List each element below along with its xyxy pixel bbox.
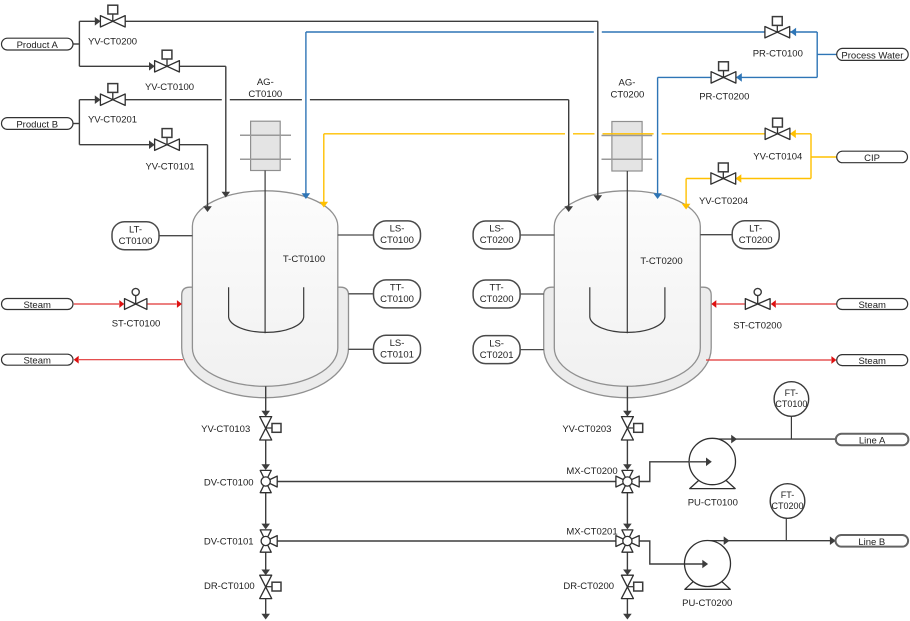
wire Product A branch riser (78, 21, 80, 66)
svg-text:MX-CT0200: MX-CT0200 (566, 466, 617, 477)
svg-text:LT-: LT- (749, 223, 762, 234)
wire FT-CT0200 tap (785, 518, 787, 540)
svg-text:YV-CT0201: YV-CT0201 (88, 115, 137, 126)
valve DV-CT0101 (3-way) (260, 530, 271, 541)
svg-text:Line B: Line B (858, 537, 885, 548)
wire MX-CT0201 to DR-CT0200 (626, 552, 628, 570)
wire MX-CT0200 to pump PU-CT0100 (639, 462, 706, 482)
svg-text:TT-: TT- (390, 283, 404, 294)
svg-text:Steam: Steam (858, 356, 886, 367)
svg-text:AG-: AG- (257, 77, 274, 88)
valve YV-CT0201 (112, 92, 114, 99)
wire steam return right (706, 359, 831, 361)
svg-text:ST-CT0200: ST-CT0200 (733, 320, 782, 331)
valve YV-CT0100 (166, 59, 168, 66)
wire FT-CT0100 tap (790, 416, 792, 439)
svg-text:CT0201: CT0201 (480, 350, 514, 361)
wire drop into tank 1 from YV-CT0101 (207, 145, 209, 207)
valve YV-CT0203 (627, 427, 633, 429)
wire Process Water stub (817, 53, 837, 55)
svg-text:YV-CT0103: YV-CT0103 (201, 424, 250, 435)
wire tank1 outlet to YV-CT0103 (265, 386, 267, 411)
valve DR-CT0200 (627, 586, 633, 588)
valve YV-CT0104 (777, 127, 779, 134)
wire YV-CT0101 run y=144.7 (79, 144, 207, 146)
node Product B (2, 118, 74, 130)
instrument LT-CT0100 (159, 235, 193, 237)
svg-text:Product A: Product A (17, 40, 59, 51)
svg-text:Product B: Product B (16, 120, 58, 131)
valve PR-CT0200 (723, 71, 725, 78)
node Product A (2, 38, 74, 50)
svg-text:DV-CT0100: DV-CT0100 (204, 478, 254, 489)
svg-text:CT0200: CT0200 (771, 501, 803, 511)
svg-text:YV-CT0200: YV-CT0200 (88, 36, 137, 47)
svg-text:YV-CT0203: YV-CT0203 (562, 424, 611, 435)
wire yellow drop into tank 2 (685, 179, 687, 205)
wire Product B stub (73, 123, 79, 125)
impeller tank 1 (229, 287, 304, 332)
instrument LS-CT0201 (521, 349, 544, 351)
svg-text:DR-CT0200: DR-CT0200 (563, 581, 614, 592)
node CIP (837, 151, 908, 163)
instrument LT-CT0200 (700, 234, 732, 236)
svg-text:LT-: LT- (129, 224, 142, 235)
instrument TT-CT0100 (349, 293, 374, 295)
instrument LS-CT0200 (521, 234, 555, 236)
instrument FT-CT0200 (770, 484, 805, 519)
svg-text:CT0200: CT0200 (480, 235, 514, 246)
wire DR-CT0200 drain (626, 599, 628, 614)
svg-text:CT0200: CT0200 (739, 235, 773, 246)
svg-text:MX-CT0201: MX-CT0201 (566, 527, 617, 538)
svg-text:PR-CT0100: PR-CT0100 (753, 48, 803, 59)
valve MX-CT0201 (4-way) (622, 530, 633, 541)
wire Product A to YV-CT0200 and tank 2 (top run y=21) (79, 20, 597, 22)
wire DV-CT0100 to MX-CT0200 (277, 481, 616, 483)
instrument LS-CT0101 (349, 348, 374, 350)
jacket of tank T-CT0200 (544, 287, 712, 397)
svg-text:YV-CT0101: YV-CT0101 (145, 162, 194, 173)
agitator shaft tank 2 (626, 171, 628, 333)
wire steam return left (79, 359, 183, 361)
valve MX-CT0200 (4-way) (622, 470, 633, 481)
svg-text:YV-CT0204: YV-CT0204 (699, 196, 748, 207)
wire drop into tank 2 from YV-CT0201 (568, 100, 570, 207)
svg-text:FT-: FT- (785, 388, 799, 398)
svg-text:CT0100: CT0100 (248, 89, 282, 100)
agitator motor AG-CT0100 (251, 121, 281, 170)
node Steam return right (837, 355, 908, 366)
node Steam supply left (2, 299, 74, 310)
wire Product B to YV-CT0201 and tank 2 (run y=99.7, jump gaps) (79, 99, 221, 101)
wire CIP stub (811, 156, 837, 158)
svg-text:ST-CT0100: ST-CT0100 (112, 319, 161, 330)
svg-text:Line A: Line A (859, 436, 886, 447)
valve YV-CT0204 (722, 172, 724, 179)
svg-text:CIP: CIP (864, 153, 880, 164)
impeller tank 2 (590, 287, 665, 332)
wire DR-CT0100 drain (265, 599, 267, 614)
jacket of tank T-CT0100 (182, 287, 349, 398)
pump PU-CT0100 (690, 468, 736, 489)
svg-text:PU-CT0200: PU-CT0200 (682, 598, 732, 609)
wire MX-CT0200 to MX-CT0201 (626, 493, 628, 524)
wire drop into tank 2 from YV-CT0200 (597, 21, 599, 196)
instrument TT-CT0200 (521, 293, 544, 295)
node Line A (836, 434, 909, 446)
wire YV-CT0103 to DV-CT0100 (265, 440, 267, 465)
svg-text:CT0200: CT0200 (610, 90, 644, 101)
wire PU-CT0100 discharge to Line A (712, 438, 836, 440)
wire Process Water run y=32 to tank 1 (jump gap at x=598) (602, 31, 817, 33)
valve DV-CT0100 (3-way) (260, 470, 271, 481)
wire DV-CT0100 to DV-CT0101 (265, 493, 267, 524)
wire drop into tank 1 from YV-CT0100 (225, 66, 227, 192)
wire DV-CT0101 to DR-CT0100 (265, 552, 267, 570)
svg-text:Steam: Steam (23, 300, 51, 311)
wire yellow drop into tank 1 (323, 134, 325, 202)
svg-text:PU-CT0100: PU-CT0100 (688, 497, 738, 508)
svg-text:Steam: Steam (23, 356, 51, 367)
svg-text:T-CT0200: T-CT0200 (640, 256, 682, 267)
valve YV-CT0103 (266, 427, 272, 429)
svg-text:PR-CT0200: PR-CT0200 (699, 91, 749, 102)
wire YV-CT0203 to MX-CT0200 (626, 440, 628, 465)
wire CIP riser (810, 134, 812, 179)
wire Process Water run y=77.4 to PR-CT0200 (658, 76, 818, 78)
wire tank2 outlet to YV-CT0203 (626, 386, 628, 411)
svg-text:CT0100: CT0100 (775, 399, 807, 409)
node Steam supply right (837, 299, 908, 310)
svg-text:T-CT0100: T-CT0100 (283, 254, 325, 265)
valve PR-CT0100 (776, 25, 778, 32)
wire blue drop into tank 1 (305, 32, 307, 194)
wire MX-CT0201 to pump PU-CT0200 (639, 541, 703, 564)
svg-text:TT-: TT- (489, 283, 503, 294)
wire DV-CT0101 to MX-CT0201 (277, 540, 616, 542)
instrument FT-CT0100 (774, 382, 809, 417)
svg-text:Process Water: Process Water (841, 50, 903, 61)
svg-text:DR-CT0100: DR-CT0100 (204, 581, 255, 592)
agitator shaft tank 1 (264, 171, 266, 334)
wire Process Water riser (816, 32, 818, 77)
svg-text:CT0100: CT0100 (380, 235, 414, 246)
node Steam return left (2, 354, 74, 365)
node Process Water (837, 48, 909, 60)
valve YV-CT0101 (166, 137, 168, 144)
wire CIP run y=133.8 to tank 1 (jump gaps) (662, 133, 811, 135)
wire CIP run y=178.5 to YV-CT0204 (686, 178, 811, 180)
svg-text:Steam: Steam (858, 300, 886, 311)
svg-text:CT0200: CT0200 (480, 294, 514, 305)
wire steam supply left (74, 303, 119, 305)
svg-text:FT-: FT- (781, 490, 795, 500)
svg-text:LS-: LS- (489, 224, 504, 235)
svg-text:DV-CT0101: DV-CT0101 (204, 537, 254, 548)
instrument LS-CT0100 (338, 234, 374, 236)
svg-text:LS-: LS- (390, 338, 405, 349)
wire YV-CT0100 run y=66 (79, 65, 225, 67)
svg-text:CT0100: CT0100 (119, 236, 153, 247)
svg-text:CT0101: CT0101 (380, 350, 414, 361)
agitator motor AG-CT0200 (612, 122, 642, 172)
svg-text:AG-: AG- (619, 78, 636, 89)
svg-text:YV-CT0100: YV-CT0100 (145, 82, 194, 93)
valve ST-CT0100 (135, 296, 137, 305)
svg-text:LS-: LS- (390, 224, 405, 235)
svg-text:LS-: LS- (489, 338, 504, 349)
valve YV-CT0200 (112, 14, 114, 21)
wire Product B branch riser (78, 100, 80, 145)
svg-text:YV-CT0104: YV-CT0104 (753, 151, 802, 162)
vessel T-CT0200 (554, 191, 700, 386)
wire Product A stub (73, 43, 79, 45)
svg-text:CT0100: CT0100 (380, 294, 414, 305)
valve ST-CT0200 (757, 296, 759, 305)
wire blue drop into tank 2 (657, 77, 659, 193)
pump PU-CT0200 (685, 569, 731, 590)
node Line B (836, 535, 909, 547)
valve DR-CT0100 (266, 586, 272, 588)
wire PU-CT0200 discharge to Line B (708, 540, 830, 542)
wire steam supply right (776, 303, 837, 305)
vessel T-CT0100 (192, 191, 337, 387)
